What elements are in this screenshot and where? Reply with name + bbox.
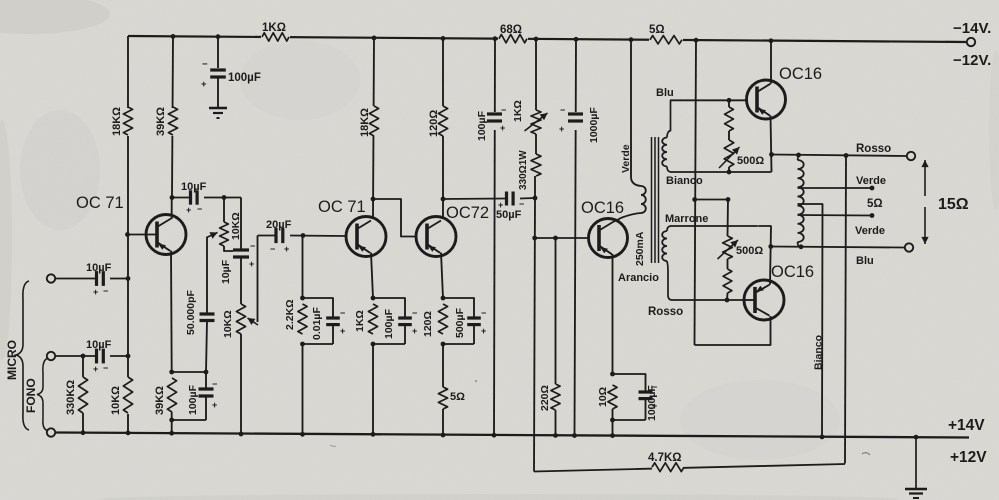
potentiometer 10K upper	[207, 198, 243, 252]
secondary top coil T1	[662, 138, 667, 167]
label +12V	[950, 449, 987, 466]
svg-text:+: +	[498, 200, 503, 210]
resistor 220ohm base shunt	[539, 238, 560, 438]
wire Blu row	[771, 244, 905, 249]
svg-text:+: +	[652, 401, 657, 411]
svg-text:10KΩ: 10KΩ	[110, 386, 122, 415]
core T1	[652, 137, 659, 263]
svg-text:OC 71: OC 71	[76, 194, 124, 212]
label 15ohm	[938, 196, 969, 213]
terminal Rosso	[907, 152, 915, 160]
wire Marrone row	[670, 225, 772, 227]
label -14V	[953, 20, 991, 37]
ground right	[905, 435, 927, 498]
svg-text:−: −	[270, 244, 275, 254]
transistor Q3 OC72	[416, 217, 456, 299]
wire driver base	[535, 236, 589, 241]
svg-text:+: +	[212, 400, 217, 410]
resistor 18K collector load Q2	[359, 106, 382, 137]
transistor Q5 OC16 top	[747, 38, 786, 172]
svg-text:OC 71: OC 71	[318, 198, 366, 216]
wire Blu lead	[667, 100, 671, 137]
svg-text:+: +	[201, 79, 207, 90]
capacitor 100uF supply filter	[201, 59, 261, 108]
capacitor 50uF coupling	[496, 192, 524, 222]
wire Q2 base bias column	[300, 236, 305, 301]
junction dot bottom x128	[126, 431, 131, 436]
wire Rosso lead bottom	[667, 261, 672, 300]
svg-text:18KΩ: 18KΩ	[359, 108, 371, 137]
svg-text:−14V.: −14V.	[953, 20, 991, 37]
wire 18K2 column	[372, 36, 377, 217]
svg-text:−: −	[250, 241, 255, 251]
svg-text:Marrone: Marrone	[665, 213, 708, 225]
wire cap to base line	[110, 276, 130, 281]
resistor bias lower	[723, 259, 732, 300]
potentiometer 10K lower	[222, 304, 258, 436]
junction Rosso node	[769, 152, 774, 157]
svg-text:Rosso: Rosso	[856, 143, 891, 155]
svg-text:330Ω1W: 330Ω1W	[518, 150, 529, 190]
junction collector Q2	[371, 197, 376, 202]
svg-text:+: +	[481, 326, 486, 336]
svg-text:5Ω: 5Ω	[649, 24, 665, 36]
svg-text:250mA: 250mA	[634, 231, 646, 266]
label Bianco vertical	[813, 335, 825, 370]
svg-text:Bianco: Bianco	[666, 175, 703, 187]
wire 100uF3 column	[492, 36, 498, 437]
svg-text:−: −	[103, 363, 108, 373]
label OC16 bottom	[771, 263, 814, 281]
label Verde primary	[620, 144, 632, 173]
emitter network Q3 node	[441, 296, 446, 301]
resistor 1K emitter Q2	[354, 304, 378, 334]
svg-text:+: +	[500, 123, 505, 133]
wire Q4 emitter to rail	[610, 420, 615, 438]
svg-text:10µF: 10µF	[86, 262, 112, 274]
capacitor 100uF decoupling mid	[476, 105, 506, 141]
label Rosso bottom	[648, 306, 683, 318]
wire bottom supply rail +14V	[56, 433, 970, 438]
svg-text:39KΩ: 39KΩ	[154, 386, 166, 415]
svg-text:MICRO: MICRO	[5, 340, 19, 380]
label OC16 driver	[581, 199, 624, 217]
label +14V	[948, 417, 985, 434]
transistor Q2 OC71 second	[346, 217, 386, 299]
resistor 2.2K	[284, 299, 307, 334]
wire Rosso row	[772, 153, 908, 158]
svg-text:OC16: OC16	[779, 65, 822, 83]
wire bias column down	[534, 198, 535, 472]
svg-text:−: −	[412, 308, 417, 318]
potentiometer 500ohm upper	[719, 140, 764, 174]
svg-text:OC16: OC16	[771, 263, 814, 281]
svg-text:FONO: FONO	[24, 378, 38, 413]
brace FONO	[37, 358, 48, 431]
transistor Q4 OC16 driver	[589, 219, 628, 258]
label Verde lower	[855, 225, 885, 237]
wire emitter to rail	[169, 420, 174, 436]
svg-text:220Ω: 220Ω	[539, 385, 551, 411]
wire Bianco row	[670, 171, 772, 173]
tap Verde lower	[798, 213, 875, 218]
wire 100uF column	[216, 34, 221, 68]
emitter network Q2 node	[371, 296, 376, 301]
svg-text:10µF: 10µF	[181, 181, 207, 193]
capacitor 1000uF supply	[559, 105, 600, 143]
transistor Q6 OC16 bottom	[695, 226, 785, 345]
svg-text:+: +	[340, 326, 345, 336]
svg-text:1KΩ: 1KΩ	[262, 22, 286, 34]
svg-text:−: −	[560, 105, 565, 115]
terminal bottom rail	[47, 428, 55, 436]
capacitor C 10uF input2	[86, 339, 112, 374]
svg-text:Verde: Verde	[855, 225, 885, 237]
svg-text:500Ω: 500Ω	[737, 155, 764, 167]
brace MICRO	[16, 281, 29, 430]
wire 120ohm column	[441, 36, 446, 217]
svg-text:500Ω: 500Ω	[736, 245, 763, 257]
svg-text:+: +	[412, 326, 417, 336]
wire input2 to cap	[55, 354, 96, 359]
junction 50uF node	[533, 196, 538, 201]
svg-text:−12V.: −12V.	[953, 52, 991, 69]
resistor bias upper chain	[725, 100, 734, 140]
wire Bianco lead	[667, 167, 671, 173]
svg-text:+14V: +14V	[948, 417, 985, 434]
resistor 39K bias upper	[155, 34, 181, 136]
wire primary top Verde	[629, 37, 641, 186]
resistor 4.7K feedback	[648, 452, 684, 472]
tap Verde upper	[798, 186, 875, 191]
terminal -14V	[946, 38, 975, 46]
svg-text:120Ω: 120Ω	[428, 110, 440, 137]
output coil	[798, 155, 804, 247]
svg-text:10Ω: 10Ω	[597, 387, 609, 407]
wire corner column x241	[240, 198, 242, 250]
svg-text:5Ω: 5Ω	[450, 391, 465, 403]
svg-text:−: −	[103, 286, 108, 296]
wire top supply rail -14V	[128, 29, 966, 47]
svg-text:−: −	[652, 382, 657, 392]
svg-text:Rosso: Rosso	[648, 306, 683, 318]
svg-text:−: −	[202, 59, 208, 70]
svg-text:−: −	[519, 199, 524, 209]
svg-text:20µF: 20µF	[266, 219, 292, 231]
wire Q2 emitter to rail	[371, 344, 376, 437]
svg-text:10µF: 10µF	[220, 259, 232, 284]
svg-text:50µF: 50µF	[496, 209, 522, 221]
capacitor 50000pF	[185, 289, 215, 372]
capacitor 10uF coupling Q1	[172, 181, 207, 215]
svg-text:1000µF: 1000µF	[588, 107, 600, 143]
wire Q2 collector to Q3 base	[373, 199, 415, 237]
svg-text:Arancio: Arancio	[618, 272, 659, 284]
svg-text:100µF: 100µF	[476, 110, 488, 141]
resistor 18K bias upper	[111, 107, 136, 136]
terminal input 1 MICRO	[47, 274, 55, 282]
svg-text:10µF: 10µF	[86, 339, 112, 351]
junction collector Q3	[441, 197, 446, 202]
resistor 5ohm in top rail	[649, 24, 682, 44]
label Bianco	[666, 175, 703, 187]
svg-text:+: +	[249, 259, 254, 269]
resistor 120ohm collector load Q3	[428, 106, 451, 137]
terminal input 2 FONO	[47, 352, 55, 360]
capacitor 10uF divider	[220, 241, 255, 304]
wire 1000uF column	[572, 37, 578, 438]
svg-text:+: +	[93, 364, 98, 374]
svg-text:100µF: 100µF	[187, 384, 199, 415]
junction Blu node	[768, 244, 773, 249]
svg-text:Verde: Verde	[856, 175, 886, 187]
label Marrone	[665, 213, 708, 225]
svg-text:68Ω: 68Ω	[500, 24, 522, 36]
svg-text:100µF: 100µF	[228, 72, 261, 84]
svg-text:330KΩ: 330KΩ	[65, 380, 77, 415]
junction dot emitter node	[169, 370, 174, 375]
label Blu	[656, 87, 674, 99]
wire Q3 collector to 50uF	[443, 198, 506, 201]
tap center to ground	[798, 204, 825, 439]
primary coil T1	[641, 186, 646, 213]
wire Rosso row bottom	[672, 298, 744, 303]
wire supply drop x695	[694, 38, 699, 345]
label Rosso	[856, 143, 891, 155]
junction driver base node	[532, 236, 537, 241]
wire cap2 to base line	[110, 354, 130, 359]
capacitor 100uF emitter Q2	[371, 298, 418, 346]
svg-text:50.000pF: 50.000pF	[185, 289, 197, 335]
svg-text:−: −	[197, 204, 202, 214]
svg-text:39KΩ: 39KΩ	[155, 107, 167, 136]
wire Marrone lead	[667, 226, 671, 231]
capacitor 0.01uF	[300, 298, 345, 346]
resistor 68ohm in top rail	[499, 24, 527, 43]
wire coupling to corner	[204, 195, 241, 200]
wire 2.2K to rail	[300, 344, 305, 437]
svg-text:+12V: +12V	[950, 449, 987, 466]
capacitor C 10uF input1	[86, 262, 112, 297]
wire pot column	[534, 37, 539, 110]
label Blu output	[856, 255, 874, 267]
svg-text:+: +	[186, 205, 191, 215]
wire wiper column	[206, 237, 208, 313]
svg-text:Verde: Verde	[620, 144, 632, 173]
transistor Q1 OC71	[125, 195, 186, 372]
capacitor 20uF coupling	[258, 219, 292, 254]
label -12V	[953, 52, 991, 69]
ground top left	[209, 108, 227, 118]
svg-text:4.7KΩ: 4.7KΩ	[648, 452, 682, 464]
label 5ohm tap	[867, 198, 883, 210]
capacitor 1000uF emitter Q4	[610, 374, 658, 422]
wire Blu row to Q5 base	[670, 98, 747, 103]
label FONO	[24, 378, 38, 413]
svg-text:1KΩ: 1KΩ	[354, 310, 366, 332]
resistor 330ohm 1W	[518, 134, 541, 198]
resistor 5ohm emitter Q3	[438, 344, 465, 437]
resistor 330K input shunt	[65, 356, 88, 435]
wire emitter box top	[172, 370, 209, 375]
svg-text:18KΩ: 18KΩ	[111, 107, 123, 136]
impedance arrows 15ohm	[921, 160, 928, 244]
svg-text:Blu: Blu	[856, 255, 874, 267]
label OC71 first	[76, 194, 124, 212]
svg-text:500µF: 500µF	[454, 307, 466, 338]
wire left column x128	[127, 36, 129, 433]
terminal Blu	[905, 243, 913, 251]
svg-text:−: −	[212, 379, 217, 389]
svg-text:Blu: Blu	[656, 87, 674, 99]
wire wiper2 column	[257, 236, 259, 323]
svg-text:100µF: 100µF	[383, 308, 395, 339]
label OC72	[446, 204, 489, 222]
potentiometer 500ohm lower	[718, 236, 764, 259]
svg-text:2.2KΩ: 2.2KΩ	[284, 299, 296, 330]
svg-text:15Ω: 15Ω	[938, 196, 969, 213]
resistor 10K input shunt	[110, 377, 136, 415]
svg-text:−: −	[501, 105, 506, 115]
wire Q4 emitter column	[610, 254, 615, 376]
svg-text:OC16: OC16	[581, 199, 624, 217]
wire to Q2 base	[290, 233, 345, 238]
wire Q4 collector to transformer	[613, 213, 641, 222]
wire input1 to cap	[55, 278, 96, 280]
capacitor 100uF emitter bypass	[169, 372, 217, 422]
svg-text:−: −	[340, 308, 345, 318]
svg-text:10KΩ: 10KΩ	[222, 310, 234, 338]
svg-text:120Ω: 120Ω	[422, 311, 434, 337]
resistor 39K emitter	[154, 378, 177, 420]
svg-text:+: +	[93, 287, 98, 297]
label Verde upper	[856, 175, 886, 187]
capacitor 500uF emitter Q3	[441, 298, 487, 346]
label Arancio	[618, 272, 659, 284]
wire feedback riser	[845, 156, 846, 464]
wire 39K column upper	[172, 36, 173, 197]
wire bias lower chain	[727, 200, 730, 237]
svg-text:−: −	[481, 308, 486, 318]
svg-text:1KΩ: 1KΩ	[512, 100, 524, 122]
wire bias tie	[692, 197, 730, 202]
svg-text:+: +	[284, 244, 289, 254]
resistor 10ohm emitter Q4	[597, 385, 617, 420]
secondary bottom coil T1	[662, 231, 667, 261]
svg-text:OC72: OC72	[446, 204, 489, 222]
wire feedback lower row	[534, 460, 845, 473]
wire 50uF to bias node	[520, 197, 535, 200]
svg-text:5Ω: 5Ω	[867, 198, 883, 210]
label OC71 second	[318, 198, 366, 216]
label MICRO	[5, 340, 19, 380]
label 250mA	[634, 231, 646, 266]
resistor 120ohm emitter Q3	[422, 304, 448, 337]
resistor 1K in top rail	[262, 22, 289, 41]
svg-text:0.01µF: 0.01µF	[311, 307, 323, 340]
potentiometer 1K	[512, 100, 548, 134]
label OC16 top	[779, 65, 822, 83]
svg-text:+: +	[559, 124, 564, 134]
